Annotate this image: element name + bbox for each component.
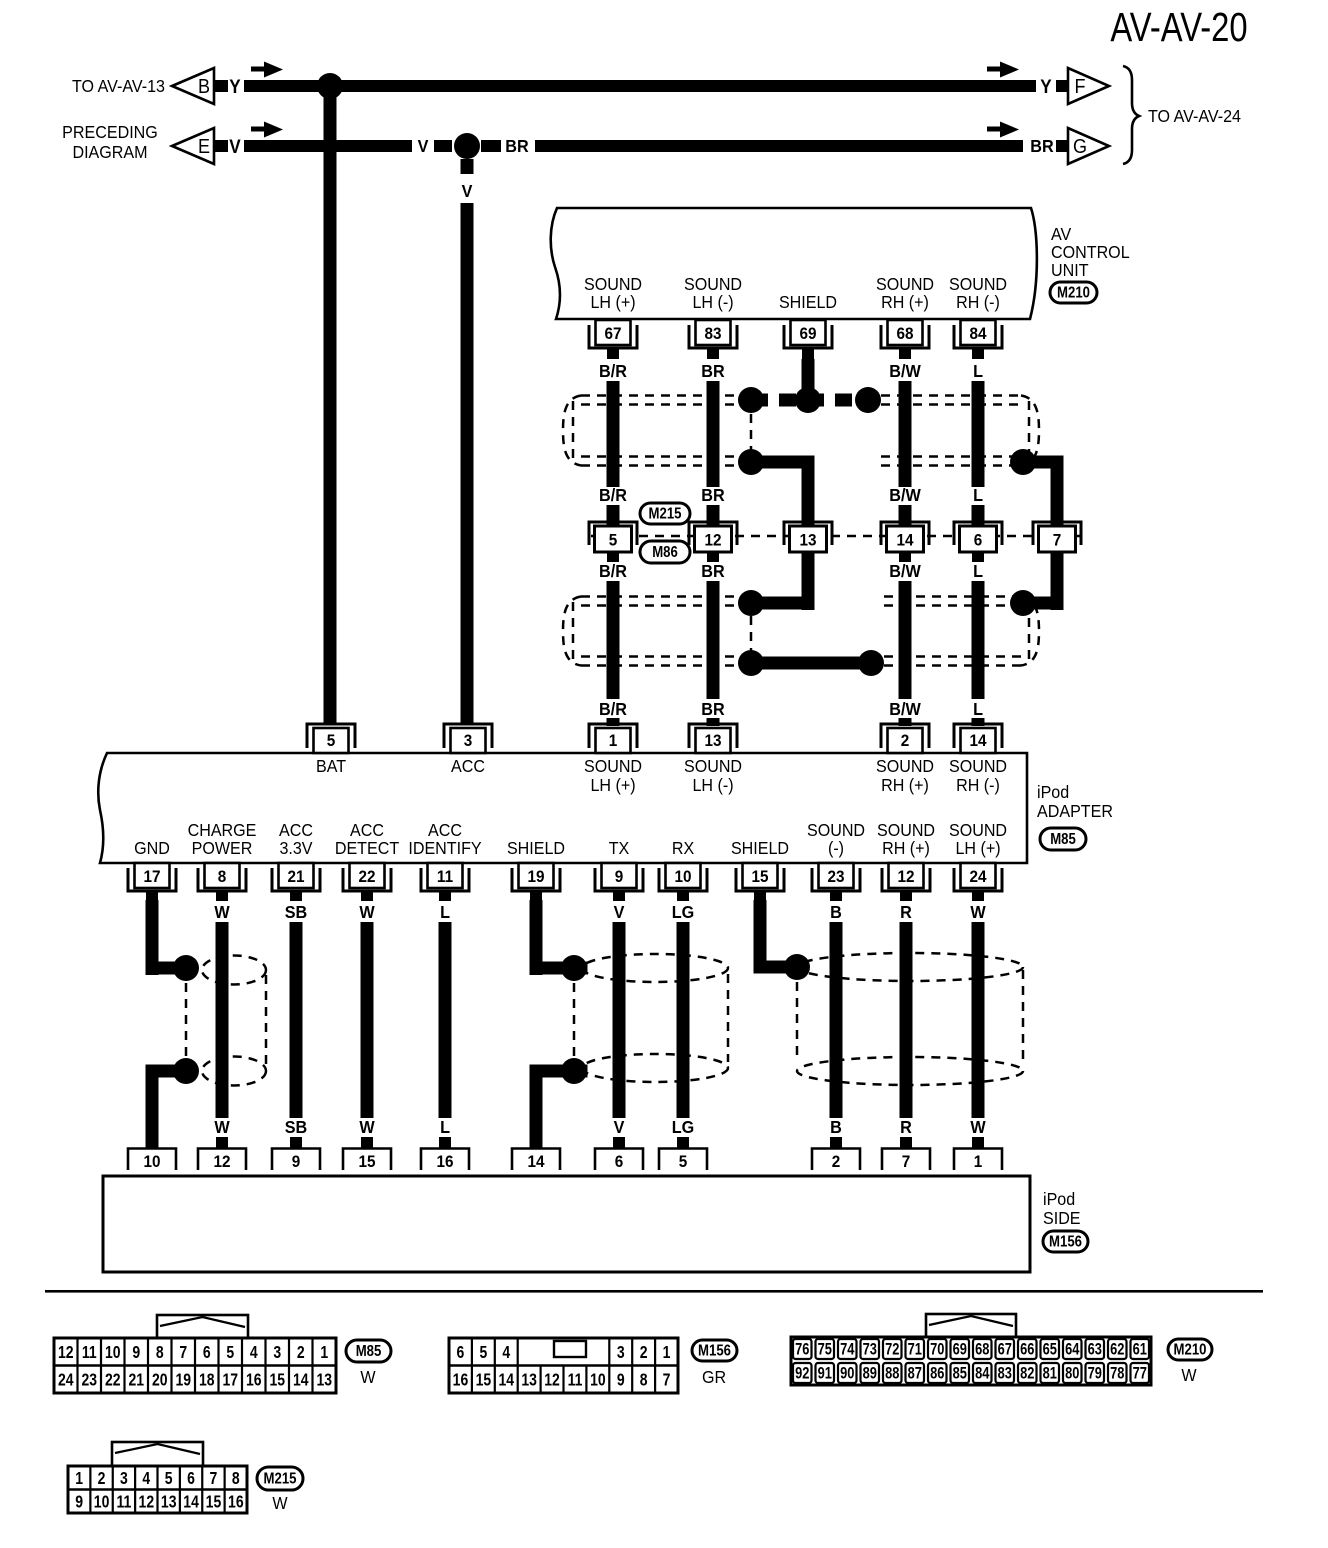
svg-text:BAT: BAT	[316, 756, 346, 776]
wire B/W seg5	[899, 718, 912, 726]
AV unit pin label SOUND LH (-)	[684, 274, 742, 312]
shield dashed drop GND	[185, 983, 188, 1056]
wire label W row5	[214, 902, 230, 922]
svg-text:13: 13	[521, 1371, 537, 1390]
svg-text:12: 12	[704, 531, 721, 550]
iPod adapter top pin 14	[954, 724, 1002, 753]
svg-text:3: 3	[273, 1343, 281, 1362]
svg-text:B: B	[830, 902, 842, 922]
svg-text:RH (+): RH (+)	[881, 775, 929, 795]
wire L seg5	[972, 718, 985, 726]
wire W stub to iPod side pin	[972, 1137, 984, 1149]
svg-text:9: 9	[615, 867, 624, 886]
svg-text:61: 61	[1133, 1341, 1147, 1359]
wire label L row1	[973, 361, 983, 381]
svg-text:76: 76	[795, 1341, 809, 1359]
wire B/W stub below mid pin	[899, 552, 911, 562]
svg-text:92: 92	[795, 1365, 809, 1383]
wire label B/R row3	[599, 561, 627, 581]
svg-text:SOUND: SOUND	[807, 820, 865, 840]
svg-text:2: 2	[832, 1152, 841, 1171]
adapter pin label BAT	[316, 756, 346, 776]
svg-text:M156: M156	[698, 1343, 731, 1360]
wire R stub to iPod side pin	[900, 1137, 912, 1149]
wire label W row6	[970, 1117, 986, 1137]
svg-text:68: 68	[896, 324, 913, 343]
shield link wire (thick dashed)	[751, 394, 868, 407]
AV unit pin label SOUND RH (+)	[876, 274, 934, 312]
connector arrow G	[1056, 128, 1109, 164]
wire shield node to pin 10	[146, 1058, 200, 1150]
wire W lower segment	[972, 922, 985, 1118]
AV unit pin 84	[954, 320, 1002, 359]
svg-text:L: L	[973, 361, 983, 381]
wire segment node to BR label	[481, 140, 501, 152]
adapter pin label SOUND LH (+)	[949, 820, 1007, 858]
svg-text:3.3V: 3.3V	[279, 838, 313, 858]
connector M210 color W	[1181, 1365, 1196, 1385]
svg-text:22: 22	[358, 867, 375, 886]
wire W stub to iPod side pin	[361, 1137, 373, 1149]
wire V vertical (ACC feed)	[461, 203, 474, 725]
junction node Y	[317, 73, 343, 99]
svg-text:2: 2	[98, 1469, 106, 1488]
label PRECEDING DIAGRAM	[62, 122, 158, 162]
svg-text:15: 15	[358, 1152, 375, 1171]
wire LG lower segment	[677, 922, 690, 1118]
svg-text:69: 69	[799, 324, 816, 343]
mid connector pin 7 (M215/M86)	[1033, 522, 1081, 552]
svg-text:1: 1	[75, 1469, 83, 1488]
wire label W row6	[214, 1117, 230, 1137]
svg-text:SOUND: SOUND	[684, 274, 742, 294]
wire B/R seg2	[607, 505, 620, 527]
svg-text:ACC: ACC	[428, 820, 462, 840]
wire label B/R row2	[599, 485, 627, 505]
connector M215 color W	[272, 1493, 287, 1513]
oval M210 connector	[1168, 1339, 1212, 1360]
wire label L row6	[440, 1117, 450, 1137]
shield dashed drop TX/RX cable	[573, 983, 576, 1056]
svg-text:GND: GND	[134, 838, 170, 858]
wire label W row5	[359, 902, 375, 922]
svg-text:87: 87	[908, 1365, 922, 1383]
AV unit pin 68	[881, 320, 929, 359]
brace TO AV-AV-24	[1123, 66, 1241, 164]
svg-text:BR: BR	[701, 485, 724, 505]
wire label BR row4	[701, 699, 724, 719]
wire BR label right	[1030, 136, 1053, 156]
svg-text:SOUND: SOUND	[876, 756, 934, 776]
svg-text:7: 7	[902, 1152, 911, 1171]
svg-text:LG: LG	[672, 902, 694, 922]
wire Y label right	[1040, 76, 1051, 97]
wire label V row5	[614, 902, 625, 922]
wire BR seg4	[707, 581, 720, 699]
wire V vertical label	[462, 181, 473, 201]
adapter pin label SHIELD	[731, 838, 789, 858]
svg-text:90: 90	[840, 1365, 854, 1383]
svg-text:89: 89	[863, 1365, 877, 1383]
wire V stub to iPod side pin	[613, 1137, 625, 1149]
shielded cable symbol sound	[797, 953, 1023, 1085]
svg-text:7: 7	[210, 1469, 218, 1488]
svg-text:2: 2	[901, 731, 910, 750]
wire V label left	[229, 136, 240, 157]
svg-text:8: 8	[218, 867, 227, 886]
svg-text:24: 24	[58, 1371, 74, 1390]
wire label B/W row4	[889, 699, 921, 719]
svg-text:GR: GR	[702, 1367, 726, 1387]
svg-text:12: 12	[139, 1493, 155, 1512]
svg-text:8: 8	[640, 1371, 648, 1390]
iPod adapter bottom pin 24	[954, 863, 1002, 901]
AV unit pin 83	[689, 320, 737, 359]
iPod adapter top pin 13	[689, 724, 737, 753]
wire V mid label	[418, 136, 429, 156]
shielded cable symbol lower-right	[884, 597, 1039, 666]
svg-text:13: 13	[704, 731, 721, 750]
svg-text:9: 9	[132, 1343, 140, 1362]
svg-text:14: 14	[293, 1371, 309, 1390]
svg-text:11: 11	[437, 867, 453, 886]
wire label B/W row3	[889, 561, 921, 581]
svg-text:BR: BR	[701, 561, 724, 581]
adapter pin label GND	[134, 838, 170, 858]
svg-text:B/R: B/R	[599, 561, 627, 581]
connector face M85	[54, 1315, 336, 1393]
shield node drain	[795, 387, 821, 413]
wire label W row5	[970, 902, 986, 922]
iPod adapter bottom pin 23	[812, 863, 860, 901]
svg-text:11: 11	[568, 1371, 583, 1390]
svg-text:6: 6	[615, 1152, 624, 1171]
svg-text:83: 83	[998, 1365, 1012, 1383]
svg-text:1: 1	[974, 1152, 983, 1171]
adapter pin label SOUND RH (+)	[877, 820, 935, 858]
AV unit pin 67	[589, 320, 637, 359]
AV unit pin label SOUND RH (-)	[949, 274, 1007, 312]
svg-text:18: 18	[199, 1371, 215, 1390]
svg-text:9: 9	[75, 1493, 83, 1512]
wire BR horizontal	[535, 140, 1023, 152]
oval M215 connector	[257, 1467, 303, 1490]
svg-text:88: 88	[885, 1365, 899, 1383]
svg-text:SHIELD: SHIELD	[731, 838, 789, 858]
svg-text:G: G	[1073, 136, 1087, 158]
svg-text:7: 7	[663, 1371, 671, 1390]
svg-text:14: 14	[498, 1371, 514, 1390]
svg-text:B: B	[830, 1117, 842, 1137]
svg-text:22: 22	[105, 1371, 121, 1390]
oval M85 connector	[346, 1340, 391, 1362]
svg-text:72: 72	[885, 1341, 899, 1359]
svg-text:66: 66	[1020, 1341, 1034, 1359]
wire shield node to pin 14	[530, 1058, 588, 1150]
svg-text:B/W: B/W	[889, 361, 921, 381]
svg-text:M85: M85	[356, 1343, 382, 1360]
mid connector pin 5 (M215/M86)	[589, 522, 637, 552]
iPod adapter bottom pin 21	[272, 863, 320, 901]
svg-text:16: 16	[436, 1152, 453, 1171]
svg-text:BR: BR	[701, 361, 724, 381]
svg-text:5: 5	[327, 731, 336, 750]
svg-text:R: R	[900, 1117, 912, 1137]
svg-text:4: 4	[250, 1343, 258, 1362]
wire B/W seg4	[899, 581, 912, 699]
svg-text:V: V	[418, 136, 429, 156]
iPod side pin 5	[659, 1149, 707, 1172]
iPod adapter bottom pin 11	[421, 863, 469, 901]
wire L seg4	[972, 581, 985, 699]
iPod side pin 12	[198, 1149, 246, 1172]
oval M156 connector	[692, 1340, 737, 1361]
svg-text:19: 19	[175, 1371, 191, 1390]
svg-text:TO AV-AV-13: TO AV-AV-13	[72, 76, 165, 96]
adapter pin label ACC 3.3V	[279, 820, 313, 858]
svg-text:LH (+): LH (+)	[590, 775, 635, 795]
svg-text:B/W: B/W	[889, 561, 921, 581]
title AV-AV-20	[1110, 3, 1247, 49]
connector M156 color GR	[702, 1367, 726, 1387]
wire B stub to iPod side pin	[830, 1137, 842, 1149]
adapter pin label SOUND RH (+)	[876, 756, 934, 795]
oval M210	[1050, 282, 1097, 303]
svg-text:SOUND: SOUND	[684, 756, 742, 776]
AV unit pin label SHIELD	[779, 292, 837, 312]
iPod SIDE label	[1043, 1189, 1081, 1228]
svg-text:M215: M215	[264, 1471, 297, 1488]
wire label V row6	[614, 1117, 625, 1137]
svg-text:M215: M215	[649, 506, 682, 523]
svg-text:W: W	[970, 902, 986, 922]
adapter pin label SOUND LH (-)	[684, 756, 742, 795]
wire R lower segment	[900, 922, 913, 1118]
wire V horizontal segment	[244, 140, 412, 152]
wire V vertical stub below node	[461, 159, 474, 174]
svg-text:12: 12	[213, 1152, 230, 1171]
svg-text:2: 2	[297, 1343, 305, 1362]
svg-text:W: W	[272, 1493, 287, 1513]
iPod ADAPTER label	[1037, 782, 1113, 821]
iPod adapter bottom pin 10	[659, 863, 707, 901]
svg-text:71: 71	[908, 1341, 922, 1359]
direction arrow (right, line Y)	[987, 62, 1019, 78]
wire W lower segment	[216, 922, 229, 1118]
wire B lower segment	[830, 922, 843, 1118]
wire label BR row2	[701, 485, 724, 505]
wire label B/W row1	[889, 361, 921, 381]
svg-text:8: 8	[232, 1469, 240, 1488]
svg-text:14: 14	[969, 731, 986, 750]
svg-text:BR: BR	[1030, 136, 1053, 156]
iPod adapter top pin 3	[444, 724, 492, 753]
svg-text:BR: BR	[505, 136, 528, 156]
svg-text:SB: SB	[285, 902, 307, 922]
svg-text:85: 85	[953, 1365, 967, 1383]
svg-text:15: 15	[206, 1493, 222, 1512]
svg-text:(-): (-)	[828, 838, 844, 858]
wire label B row5	[830, 902, 842, 922]
wire label L row4	[973, 699, 983, 719]
svg-text:V: V	[614, 902, 625, 922]
iPod SIDE box M156	[103, 1176, 1030, 1272]
svg-text:15: 15	[751, 867, 768, 886]
svg-text:CHARGE: CHARGE	[188, 820, 257, 840]
wire Y horizontal	[244, 80, 1036, 92]
svg-text:2: 2	[640, 1343, 648, 1362]
wire label L row2	[973, 485, 983, 505]
svg-text:DIAGRAM: DIAGRAM	[72, 142, 147, 162]
svg-text:CONTROL: CONTROL	[1051, 242, 1130, 262]
svg-text:SOUND: SOUND	[949, 756, 1007, 776]
svg-text:LH (-): LH (-)	[692, 292, 733, 312]
svg-text:L: L	[973, 485, 983, 505]
svg-text:78: 78	[1110, 1365, 1124, 1383]
svg-text:DETECT: DETECT	[335, 838, 399, 858]
svg-text:1: 1	[320, 1343, 328, 1362]
svg-text:74: 74	[840, 1341, 855, 1359]
svg-text:TX: TX	[609, 838, 630, 858]
wire L seg1	[972, 381, 985, 487]
shielded cable symbol lower-left	[563, 597, 740, 666]
svg-text:12: 12	[58, 1343, 74, 1362]
iPod side pin 2	[812, 1149, 860, 1172]
wire B/R seg1	[607, 381, 620, 487]
iPod adapter bottom pin 22	[343, 863, 391, 901]
svg-text:83: 83	[704, 324, 721, 343]
svg-text:3: 3	[617, 1343, 625, 1362]
svg-text:67: 67	[604, 324, 621, 343]
svg-text:11: 11	[82, 1343, 97, 1362]
shielded cable symbol upper-right	[881, 396, 1039, 466]
svg-text:10: 10	[94, 1493, 110, 1512]
wire label SB row6	[285, 1117, 307, 1137]
svg-text:6: 6	[187, 1469, 195, 1488]
svg-text:12: 12	[544, 1371, 560, 1390]
wire L lower segment	[439, 922, 452, 1118]
svg-text:LH (-): LH (-)	[692, 775, 733, 795]
svg-text:BR: BR	[701, 699, 724, 719]
wire label R row6	[900, 1117, 912, 1137]
iPod adapter top pin 1	[589, 724, 637, 753]
svg-text:23: 23	[827, 867, 844, 886]
svg-text:V: V	[229, 136, 240, 157]
iPod side pin 7	[882, 1149, 930, 1172]
iPod adapter bottom pin 15	[736, 863, 784, 901]
mid connector pin 14 (M215/M86)	[881, 522, 929, 552]
shield drain node to pin 13	[738, 449, 815, 527]
svg-text:RH (+): RH (+)	[881, 292, 929, 312]
svg-text:V: V	[462, 181, 473, 201]
iPod ADAPTER box M85	[98, 753, 1027, 863]
svg-text:16: 16	[228, 1493, 244, 1512]
svg-text:LG: LG	[672, 1117, 694, 1137]
svg-text:SHIELD: SHIELD	[779, 292, 837, 312]
svg-text:16: 16	[453, 1371, 469, 1390]
shield dashed drop left	[750, 414, 753, 450]
mid connector pin 6 (M215/M86)	[954, 522, 1002, 552]
direction arrow (left, line V)	[251, 122, 283, 138]
wire label L row3	[973, 561, 983, 581]
svg-text:84: 84	[969, 324, 986, 343]
AV CONTROL UNIT label	[1051, 224, 1130, 280]
svg-text:69: 69	[953, 1341, 967, 1359]
svg-text:W: W	[359, 1117, 375, 1137]
wire pin13 to lower shield node	[738, 552, 815, 616]
iPod side pin 1	[954, 1149, 1002, 1172]
svg-text:L: L	[440, 902, 450, 922]
oval M85	[1040, 828, 1086, 850]
wire L stub below mid pin	[972, 552, 984, 562]
wire label R row5	[900, 902, 912, 922]
svg-text:PRECEDING: PRECEDING	[62, 122, 158, 142]
wire GND pin17 to shield node	[146, 900, 200, 981]
adapter pin label ACC IDENTIFY	[408, 820, 481, 858]
svg-text:16: 16	[246, 1371, 262, 1390]
label TO AV-AV-13	[72, 76, 165, 96]
svg-text:M210: M210	[1057, 285, 1090, 302]
wire SB lower segment	[290, 922, 303, 1118]
svg-text:21: 21	[128, 1371, 144, 1390]
svg-text:RH (-): RH (-)	[956, 775, 1000, 795]
iPod adapter bottom pin 9	[595, 863, 643, 901]
wire segment V to node	[434, 140, 452, 152]
shield node right cable	[855, 387, 881, 413]
wire W lower segment	[361, 922, 374, 1118]
shield node left cable	[738, 387, 764, 413]
svg-text:7: 7	[179, 1343, 187, 1362]
wire BR seg5	[707, 718, 720, 726]
wire SB stub to iPod side pin	[290, 1137, 302, 1149]
shield dashed drop lower-left	[750, 616, 753, 651]
svg-text:F: F	[1075, 76, 1086, 98]
wire label BR row3	[701, 561, 724, 581]
svg-text:80: 80	[1065, 1365, 1079, 1383]
svg-text:15: 15	[476, 1371, 492, 1390]
adapter pin label TX	[609, 838, 630, 858]
svg-text:23: 23	[81, 1371, 97, 1390]
svg-text:RH (-): RH (-)	[956, 292, 1000, 312]
svg-text:SHIELD: SHIELD	[507, 838, 565, 858]
svg-text:15: 15	[269, 1371, 285, 1390]
svg-text:20: 20	[152, 1371, 168, 1390]
svg-text:TO AV-AV-24: TO AV-AV-24	[1148, 106, 1241, 126]
svg-text:M86: M86	[652, 544, 678, 561]
svg-text:B/R: B/R	[599, 485, 627, 505]
wire LG stub to iPod side pin	[677, 1137, 689, 1149]
adapter pin label RX	[672, 838, 694, 858]
svg-text:5: 5	[226, 1343, 234, 1362]
svg-text:W: W	[214, 1117, 230, 1137]
svg-text:7: 7	[1053, 531, 1062, 550]
svg-text:L: L	[973, 561, 983, 581]
svg-text:W: W	[359, 902, 375, 922]
connector arrow B	[172, 68, 228, 104]
svg-text:M210: M210	[1174, 1342, 1207, 1359]
connector face M156	[449, 1338, 678, 1393]
svg-text:ADAPTER: ADAPTER	[1037, 801, 1113, 821]
wire label BR row1	[701, 361, 724, 381]
svg-text:AV-AV-20: AV-AV-20	[1110, 3, 1247, 49]
junction node V/BR	[454, 133, 480, 159]
adapter pin label CHARGE POWER	[188, 820, 257, 858]
svg-text:75: 75	[818, 1341, 832, 1359]
wire B/R stub below mid pin	[607, 552, 619, 562]
wire label SB row5	[285, 902, 307, 922]
wire label W row6	[359, 1117, 375, 1137]
svg-text:W: W	[1181, 1365, 1196, 1385]
